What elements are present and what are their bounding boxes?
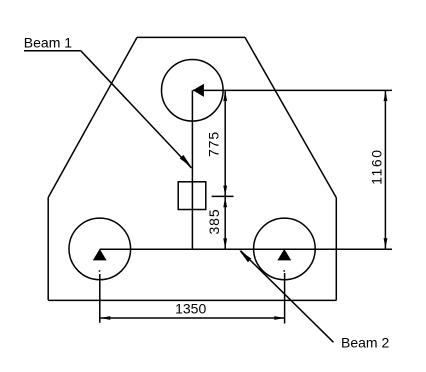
- svg-text:1160: 1160: [368, 148, 384, 185]
- hole circle top: [162, 60, 224, 122]
- support marker triangle top circle (points left): [193, 84, 204, 97]
- Beam 2 leader diagonal: [241, 251, 334, 343]
- top horizontal extension line: [193, 89, 392, 91]
- dimension line 1350: [100, 317, 285, 319]
- vertical center line from top circle to bottom beam line: [191, 90, 193, 249]
- svg-text:775: 775: [206, 131, 222, 157]
- arrowhead 1350 left: [100, 316, 110, 320]
- plate bottom edge: [48, 299, 336, 301]
- extension line 1350 left: [99, 274, 101, 323]
- dimension line 775/385: [224, 90, 226, 249]
- square block: [178, 182, 206, 210]
- support marker triangle bottom-left circle (points up): [93, 249, 107, 261]
- tick at square center: [212, 195, 234, 197]
- support marker triangle bottom-right circle (points up): [277, 249, 291, 261]
- arrowhead 775 bottom (down): [223, 186, 227, 196]
- hole circle bottom-left: [69, 218, 131, 280]
- svg-text:1350: 1350: [175, 300, 206, 316]
- bottom horizontal beam line: [100, 248, 392, 250]
- arrowhead 385 top (up): [223, 197, 227, 207]
- hole circle bottom-right: [254, 218, 316, 280]
- extension line 1350 right: [284, 273, 286, 324]
- arrowhead 775 top (up): [223, 91, 227, 101]
- center dot bottom-right circle: [283, 270, 285, 272]
- arrowhead 1160 bottom (down): [384, 238, 388, 248]
- center dot bottom-left circle: [99, 270, 101, 272]
- Beam 1 leader diagonal: [81, 51, 192, 168]
- arrowhead 1160 top (up): [384, 91, 388, 101]
- Beam 1 leader underline: [24, 50, 81, 52]
- plate top edge: [137, 36, 245, 38]
- svg-text:Beam 2: Beam 2: [341, 335, 389, 351]
- arrowhead 385 bottom (down): [223, 238, 227, 248]
- svg-text:Beam 1: Beam 1: [24, 35, 72, 51]
- svg-text:385: 385: [206, 208, 222, 234]
- arrowhead Beam 1 leader: [180, 155, 192, 167]
- plate left diagonal edge: [48, 37, 137, 197]
- plate left edge: [47, 198, 49, 301]
- arrowhead 1350 right: [274, 316, 284, 320]
- dimension line 1160: [384, 90, 386, 248]
- plate right diagonal edge: [245, 37, 336, 197]
- plate right edge: [335, 198, 337, 301]
- arrowhead Beam 2 leader: [239, 250, 251, 262]
